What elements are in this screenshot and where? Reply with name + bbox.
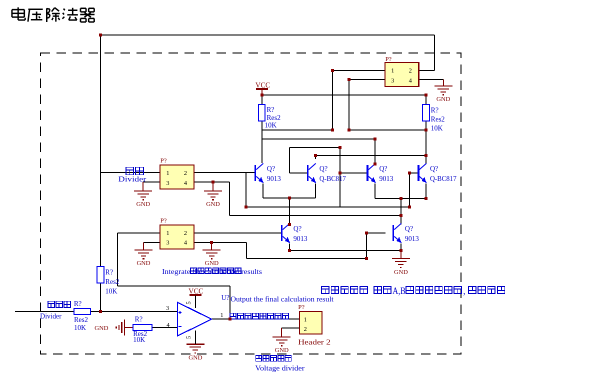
svg-text:U?: U?	[221, 294, 229, 302]
svg-text:Q?: Q?	[405, 225, 413, 233]
note Voltage divider	[255, 364, 305, 372]
svg-text:1: 1	[304, 317, 307, 324]
svg-text:Divider: Divider	[40, 312, 62, 320]
connector P2 (top right header)	[385, 56, 419, 87]
transistor Q4 Q-BC817	[418, 163, 457, 183]
svg-text:R?: R?	[105, 269, 113, 277]
svg-text:10K: 10K	[265, 121, 277, 129]
wire R2 to Q4 collector	[425, 121, 427, 164]
wire R1 to Q1 collector	[261, 121, 263, 163]
svg-text:Q?: Q?	[267, 165, 275, 173]
resistor R2 Res2 10K (right pull-up)	[423, 105, 446, 133]
note 电压除法器	[256, 355, 292, 361]
wire P1b pin1 feedback to op-amp output	[118, 233, 231, 319]
svg-text:GND: GND	[188, 354, 202, 361]
svg-text:GND: GND	[136, 201, 150, 208]
transistor Q6 9013	[392, 223, 419, 243]
svg-text:2: 2	[184, 230, 187, 237]
svg-text:GND: GND	[275, 347, 289, 354]
wire rail B to Q6 collector	[230, 214, 401, 216]
svg-text:R?: R?	[267, 106, 275, 114]
label Divider (P1a)	[118, 175, 147, 183]
note Output the final calculation result	[231, 296, 334, 304]
svg-text:Integrate the calculation resu: Integrate the calculation results	[162, 268, 262, 276]
wire Q3 Q4 emitter rail	[375, 184, 426, 199]
svg-text:Q-BC817: Q-BC817	[319, 175, 346, 183]
dashed block border	[41, 53, 462, 354]
ground G2	[204, 191, 222, 208]
svg-text:Res2: Res2	[431, 115, 446, 123]
svg-text:Res2: Res2	[74, 316, 89, 324]
svg-text:P?: P?	[160, 157, 167, 164]
svg-text:5: 5	[186, 301, 193, 304]
svg-text:GND: GND	[205, 260, 219, 267]
wire VCC to R1	[261, 95, 263, 105]
ground G1	[134, 191, 152, 208]
wire Q1 Q2 emitter rail	[263, 184, 316, 199]
svg-text:GND: GND	[394, 269, 408, 276]
svg-text:Q-BC817: Q-BC817	[430, 175, 457, 183]
transistor Q1 9013	[254, 163, 281, 183]
wire P1a pin1	[101, 172, 161, 174]
label Divider (input)	[40, 312, 62, 320]
svg-text:3: 3	[166, 240, 169, 247]
svg-text:9013: 9013	[293, 235, 308, 243]
svg-text:P?: P?	[160, 218, 167, 225]
resistor R4 Res2 10K (op-amp pin3)	[74, 300, 91, 332]
wire Q5 emitter rail to Q6 emitter	[289, 244, 401, 251]
svg-text:GND: GND	[436, 96, 450, 103]
wire P1a pin3 to GND	[143, 182, 160, 191]
resistor R3 Res2 10K (divisor input)	[97, 267, 120, 296]
resistor R5 Res2 10K (op-amp pin4)	[133, 316, 152, 345]
svg-text:10K: 10K	[74, 324, 86, 332]
wire P1b pin4 gnd rail to Q6 base	[246, 243, 366, 259]
wire P1a pin4	[194, 182, 230, 191]
svg-text:3: 3	[391, 77, 394, 84]
svg-text:1: 1	[166, 230, 169, 237]
resistor R1 Res2 10K (left pull-up)	[259, 105, 282, 130]
wire R5 to op-amp pin4	[152, 327, 177, 329]
wire op-amp pin3 input line	[15, 311, 177, 313]
svg-text:,: ,	[463, 286, 465, 296]
svg-text:Q?: Q?	[293, 225, 301, 233]
label 除数 (divisor)	[126, 167, 143, 175]
wire P1a pin2 to Q1 base	[194, 172, 255, 174]
wire Q6 emitter to GND	[400, 244, 402, 259]
svg-text:5: 5	[186, 336, 193, 339]
svg-text:10K: 10K	[105, 287, 117, 295]
wire P1a pin4 down to rail B	[229, 182, 231, 215]
ground G4	[203, 250, 221, 267]
wire Q6 base	[366, 233, 385, 258]
transistor Q5 9013	[281, 223, 308, 243]
wire L1 left (R1 node to P2 pin1)	[262, 71, 385, 130]
wire L4 (Q2 collector to R2 node)	[315, 156, 426, 159]
wire input vertical (divisor sense) x=100	[100, 35, 102, 312]
wire P2 pin4 to GND	[418, 80, 443, 86]
ground GL (op-amp pin4, rotated)	[95, 320, 134, 336]
connector P3 Header 2 (output)	[298, 304, 331, 347]
ground G3	[135, 250, 153, 267]
ground G8 (header pin2)	[273, 337, 291, 354]
svg-text:Output the final calculation r: Output the final calculation result	[231, 296, 334, 304]
svg-text:GND: GND	[137, 260, 151, 267]
svg-text:3: 3	[166, 180, 169, 187]
wire L1 right (P2 pin3 to R2 node)	[349, 80, 426, 130]
svg-text:10K: 10K	[431, 124, 443, 132]
svg-text:P?: P?	[385, 56, 392, 63]
svg-text:2: 2	[304, 326, 307, 333]
svg-text:1: 1	[391, 68, 394, 75]
note divider function line	[322, 286, 505, 296]
svg-text:P?: P?	[298, 304, 305, 311]
VCC symbol (transistor array)	[255, 82, 270, 95]
svg-text:1: 1	[166, 170, 169, 177]
svg-text:GND: GND	[95, 325, 109, 332]
title text 电压除法器 (Voltage Divider)	[12, 7, 95, 22]
wire header pin2 to GND	[282, 328, 300, 337]
svg-text:1: 1	[220, 312, 223, 319]
svg-text:9013: 9013	[379, 175, 394, 183]
wire P1b pin4	[194, 243, 246, 250]
label 被除数 (dividend)	[48, 301, 70, 307]
wire P1b pin2 to Q5 base	[194, 232, 281, 234]
svg-text:Q?: Q?	[319, 165, 327, 173]
wire Q1 base branch down	[245, 173, 247, 208]
transistor Q2 Q-BC817	[307, 163, 346, 183]
wire L2 (R1 node to Q3 collector)	[262, 139, 375, 164]
svg-text:Divider: Divider	[118, 175, 147, 183]
ground G5 (P2 pin4)	[434, 86, 452, 103]
wire P1b pin1	[118, 232, 161, 234]
svg-text:9013: 9013	[405, 235, 420, 243]
wire Q6 collector	[400, 199, 402, 225]
transistor Q3 9013	[367, 163, 394, 183]
svg-text:2: 2	[184, 170, 187, 177]
label U?	[221, 294, 229, 302]
wire Q5 collector	[288, 198, 290, 224]
svg-text:R?: R?	[431, 106, 439, 114]
svg-text:R?: R?	[74, 300, 82, 308]
svg-text:3: 3	[166, 305, 169, 312]
connector P1a (divisor input header)	[160, 157, 194, 189]
svg-text:10K: 10K	[133, 336, 145, 344]
svg-text:Q?: Q?	[379, 165, 387, 173]
connector P1b (integrate header)	[160, 218, 194, 249]
wire L3 down to Q3 base and rail A	[340, 148, 367, 207]
svg-text:9013: 9013	[267, 175, 282, 183]
note 输出最终计算结果	[230, 313, 289, 319]
wire L3 (Q2 base link)	[289, 148, 340, 173]
svg-text:Voltage divider: Voltage divider	[255, 364, 305, 372]
svg-text:A,B: A,B	[393, 286, 406, 296]
wire op-amp output to header	[212, 318, 300, 320]
wire P1b pin3 to GND	[144, 243, 161, 250]
svg-text:2: 2	[409, 68, 412, 75]
note Integrate line	[162, 268, 262, 276]
wire rail A (bases bus)	[246, 206, 410, 208]
ground G6 (Q5 Q6 emitters)	[392, 259, 410, 276]
op-amp U1	[166, 296, 223, 345]
wire VCC rail	[262, 94, 426, 96]
svg-text:R?: R?	[135, 316, 143, 324]
svg-text:Q?: Q?	[430, 165, 438, 173]
ground G7 (op-amp)	[186, 344, 204, 361]
wire VCC to R2	[425, 95, 427, 105]
svg-text:GND: GND	[206, 201, 220, 208]
VCC symbol (op-amp)	[189, 287, 204, 295]
wire top feedback from divider node to P2 pin2	[101, 35, 435, 71]
svg-text:Header 2: Header 2	[298, 339, 331, 347]
svg-text:Res2: Res2	[105, 278, 120, 286]
wire rail A up to Q4 base	[410, 173, 418, 207]
